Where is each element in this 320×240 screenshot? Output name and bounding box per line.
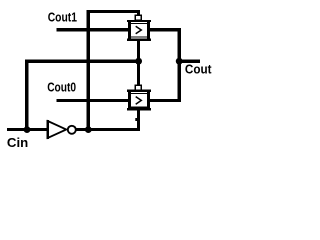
label Cin [7,135,28,150]
wire: middle horizontal (Cin control net) [25,60,140,63]
junction dot: inverter output split [85,126,92,133]
wire: vertical A (inverter output riser) [87,10,90,131]
junction dot: Cout tee [176,58,183,65]
svg-text:Cout: Cout [185,62,212,77]
U2 lower stub nub [135,118,137,121]
wire: Cout1 input horizontal [57,28,130,31]
svg-text:Cin: Cin [7,135,28,150]
inverter U3 triangle [47,120,67,139]
wire: U1 output to right vertical [150,28,181,31]
wire: Cout0 input horizontal [57,99,130,102]
wire: top horizontal (NOT-Cin net to U1 gate) [87,10,141,13]
wire: Cin bottom rail left [7,128,48,131]
U2 inverted-control square [135,85,141,90]
wire: U1 top control stub [137,10,140,17]
wire: U2 bottom control stub [137,110,140,131]
junction dot: Cin split [24,126,31,133]
U1 inverted-control square [135,15,141,20]
wire: vertical B (Cin riser) [25,60,28,132]
inverter U3 bubble [68,126,76,134]
wire: U1 bottom control stub [137,40,140,63]
label Cout [185,62,212,77]
label Cout0 [47,80,76,94]
wire: inverter output bottom rail [76,128,140,131]
transmission gate U2 [127,90,151,111]
wire: right vertical (Cout net) [178,28,181,102]
wire: U2 output to right vertical [150,99,181,102]
junction dot: control net tee [135,58,142,65]
transmission gate U1 [127,20,151,41]
label Cout1 [48,11,78,25]
wire: U2 top control stub [137,60,140,86]
svg-text:Cout0: Cout0 [47,80,76,94]
wire: Cout output stub [178,60,200,63]
svg-text:Cout1: Cout1 [48,11,78,25]
